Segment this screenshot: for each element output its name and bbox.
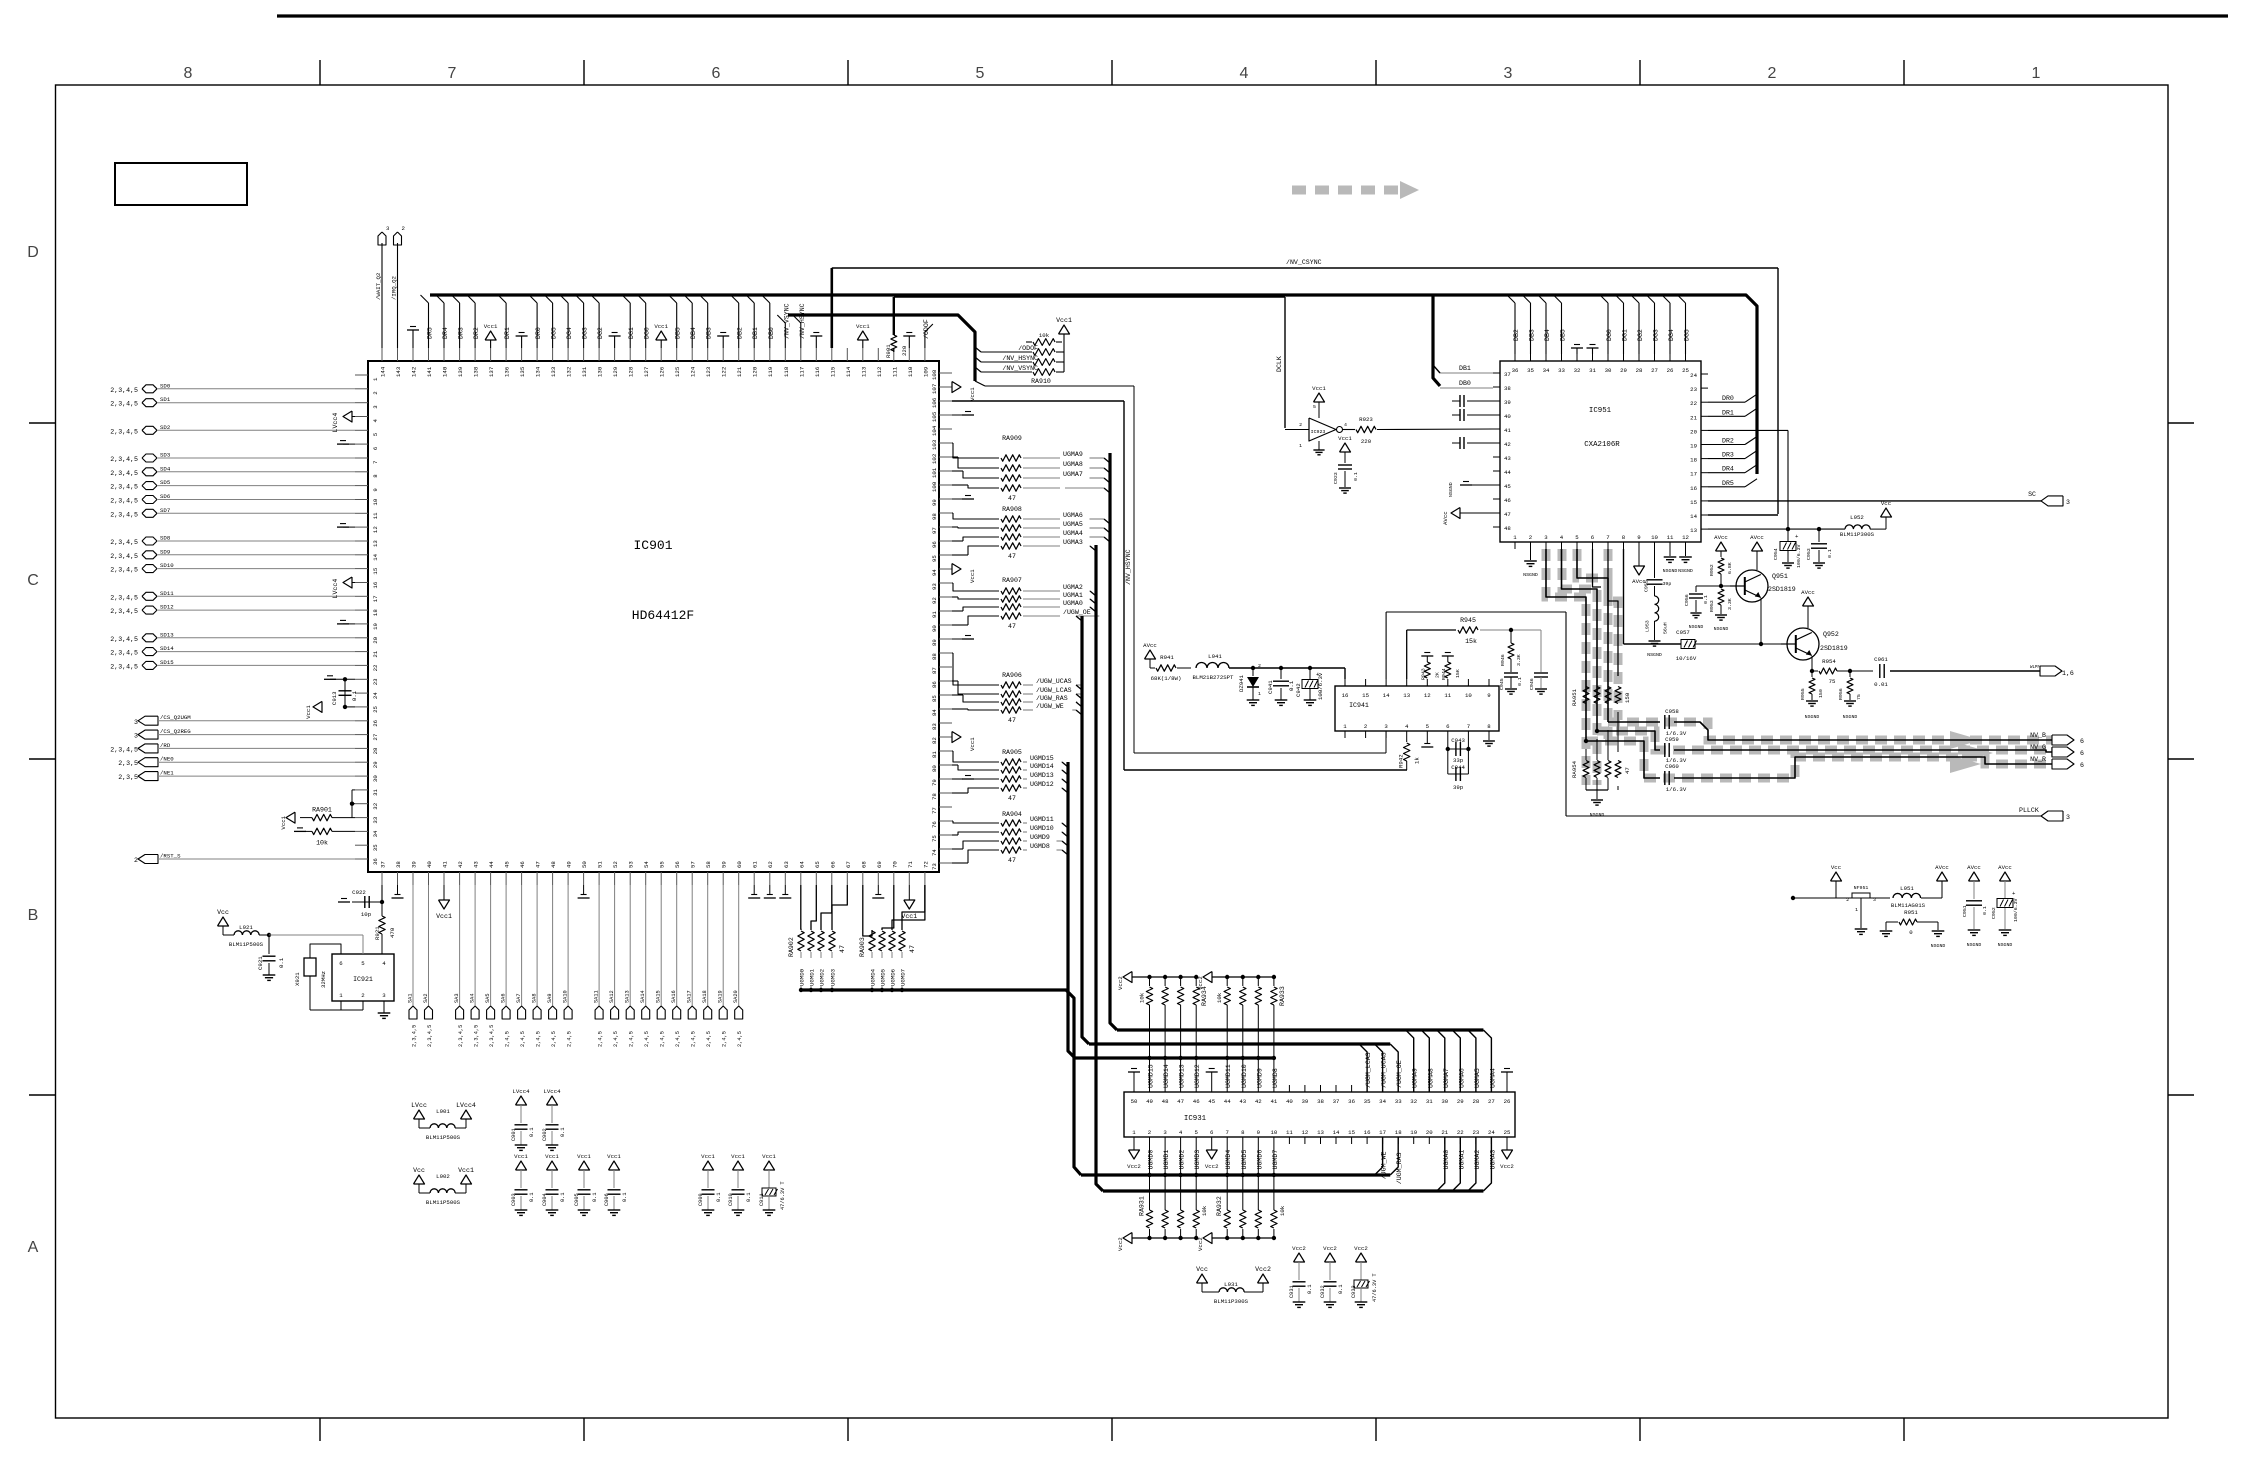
svg-text:10k: 10k — [1039, 332, 1050, 339]
IC U-IC931 — [1124, 1085, 1515, 1144]
svg-text:UGMD11: UGMD11 — [1225, 1064, 1232, 1088]
svg-text:91: 91 — [931, 611, 938, 618]
capacitor C911 47/6.3V T — [759, 1153, 786, 1215]
svg-text:RA904: RA904 — [1002, 811, 1022, 818]
svg-text:80: 80 — [931, 765, 938, 772]
ground pin6 — [337, 441, 355, 445]
svg-text:R943: R943 — [1420, 668, 1426, 680]
svg-text:24: 24 — [1690, 372, 1697, 379]
capacitor C910 0.1 — [728, 1153, 752, 1215]
svg-text:C959: C959 — [1665, 736, 1679, 743]
svg-text:6: 6 — [2080, 762, 2084, 769]
svg-text:C955: C955 — [1644, 580, 1650, 592]
svg-text:11: 11 — [1286, 1129, 1293, 1136]
svg-text:129: 129 — [612, 366, 619, 377]
svg-text:DG3: DG3 — [1653, 329, 1660, 341]
svg-text:6: 6 — [339, 960, 343, 967]
svg-text:4: 4 — [1240, 65, 1249, 82]
svg-text:0.1: 0.1 — [1982, 906, 1988, 915]
svg-text:31: 31 — [1426, 1098, 1433, 1105]
svg-text:122: 122 — [721, 366, 728, 377]
IC931 grounds and power — [1127, 1069, 1514, 1171]
svg-text:40: 40 — [1504, 413, 1511, 420]
svg-text:17: 17 — [1379, 1129, 1386, 1136]
inductor L902 — [413, 1167, 474, 1206]
svg-text:33: 33 — [1558, 367, 1565, 374]
svg-text:UGMD0: UGMD0 — [1148, 1150, 1155, 1170]
svg-text:60: 60 — [736, 861, 743, 868]
wire SC out — [1708, 491, 2070, 506]
svg-text:Vcc1: Vcc1 — [545, 1153, 559, 1160]
svg-text:UGMD9: UGMD9 — [1030, 834, 1050, 841]
svg-text:DB2: DB2 — [1513, 329, 1520, 341]
svg-text:DB1: DB1 — [752, 327, 759, 339]
svg-text:64: 64 — [798, 861, 805, 868]
svg-text:4: 4 — [382, 960, 386, 967]
svg-text:28: 28 — [1636, 367, 1643, 374]
svg-text:42: 42 — [457, 861, 464, 868]
svg-text:IC923: IC923 — [1311, 429, 1326, 435]
svg-text:16: 16 — [1342, 692, 1349, 699]
title block box — [115, 163, 247, 205]
svg-text:NV_G: NV_G — [2030, 744, 2046, 751]
svg-text:76: 76 — [931, 821, 938, 828]
svg-text:DR1: DR1 — [1722, 409, 1734, 416]
svg-text:113: 113 — [860, 366, 867, 377]
svg-text:DR2: DR2 — [1722, 438, 1734, 445]
svg-text:53: 53 — [628, 861, 635, 868]
svg-text:Vcc2: Vcc2 — [1197, 976, 1204, 990]
svg-text:Vcc1: Vcc1 — [1312, 385, 1326, 392]
svg-text:22: 22 — [1457, 1129, 1464, 1136]
svg-text:0.1: 0.1 — [1338, 1284, 1344, 1294]
svg-text:0.1: 0.1 — [1827, 549, 1833, 558]
svg-text:/UGM_OE: /UGM_OE — [1396, 1060, 1403, 1088]
svg-text:C906: C906 — [604, 1193, 610, 1206]
svg-text:78: 78 — [931, 793, 938, 800]
svg-text:DG4: DG4 — [566, 327, 573, 339]
svg-text:C958: C958 — [1665, 708, 1679, 715]
svg-text:32MHz: 32MHz — [320, 971, 327, 988]
svg-text:8: 8 — [372, 474, 379, 478]
svg-text:LVcc4: LVcc4 — [456, 1102, 476, 1109]
svg-text:44: 44 — [488, 861, 495, 868]
svg-text:3: 3 — [1384, 723, 1388, 730]
IC901 top pin wires to bus — [421, 295, 775, 348]
svg-text:17: 17 — [1690, 471, 1697, 478]
svg-text:0.1: 0.1 — [351, 690, 358, 701]
svg-text:DR1: DR1 — [504, 327, 511, 339]
svg-text:2,3,4,5: 2,3,4,5 — [110, 539, 138, 546]
IC U-IC921 — [332, 954, 394, 1001]
resistor array RA910 10k — [975, 317, 1072, 385]
svg-text:6: 6 — [712, 65, 721, 82]
svg-text:2,3,4,5: 2,3,4,5 — [110, 387, 138, 394]
svg-text:23: 23 — [372, 678, 379, 685]
svg-text:SA15: SA15 — [656, 990, 662, 1003]
svg-text:NSGND: NSGND — [1931, 943, 1946, 949]
svg-text:R956: R956 — [1838, 688, 1844, 700]
svg-text:2: 2 — [372, 391, 379, 395]
svg-text:46: 46 — [1504, 497, 1511, 504]
svg-text:AVcc: AVcc — [1714, 534, 1728, 541]
svg-text:33p: 33p — [1453, 757, 1464, 764]
wire R945 net — [1407, 617, 1541, 679]
svg-text:UGMA7: UGMA7 — [1063, 471, 1083, 478]
svg-text:C911: C911 — [759, 1193, 765, 1206]
svg-text:1: 1 — [1258, 691, 1261, 697]
svg-text:+: + — [1795, 533, 1799, 540]
IC931 bottom signal labels — [1148, 1150, 1497, 1185]
svg-text:19: 19 — [372, 622, 379, 629]
svg-text:RA951: RA951 — [1571, 688, 1578, 706]
svg-text:3: 3 — [2066, 499, 2070, 506]
svg-text:6: 6 — [2080, 738, 2084, 745]
svg-text:140: 140 — [442, 366, 449, 377]
svg-text:UGMD3: UGMD3 — [830, 968, 837, 986]
capacitors C943 C944 33p 39p — [1446, 737, 1471, 791]
inverter IC923 — [1285, 385, 1347, 455]
svg-text:Vcc: Vcc — [413, 1167, 425, 1174]
svg-text:R954: R954 — [1822, 658, 1836, 665]
capacitor C942 100/6.3V — [1295, 666, 1324, 706]
svg-text:L953: L953 — [1645, 620, 1651, 632]
svg-text:SD4: SD4 — [160, 465, 171, 472]
wire NV_G from pin4 — [1562, 549, 2085, 764]
svg-text:R945: R945 — [1460, 617, 1476, 624]
svg-text:Vcc2: Vcc2 — [1127, 1163, 1141, 1170]
svg-text:Vcc: Vcc — [1196, 1266, 1208, 1273]
svg-text:/NV_CSYNC: /NV_CSYNC — [1286, 259, 1322, 266]
inductor L921 — [217, 909, 363, 954]
svg-text:43: 43 — [1239, 1098, 1246, 1105]
svg-text:NSGND: NSGND — [1523, 572, 1538, 578]
svg-text:DB4: DB4 — [1544, 329, 1551, 341]
svg-text:4: 4 — [1560, 534, 1564, 541]
svg-text:DG2: DG2 — [1637, 329, 1644, 341]
svg-text:71: 71 — [907, 861, 914, 868]
svg-text:112: 112 — [876, 366, 883, 377]
svg-text:46: 46 — [519, 861, 526, 868]
svg-text:DB2: DB2 — [737, 327, 744, 339]
svg-text:SD12: SD12 — [160, 604, 174, 611]
capacitor C913 — [305, 676, 358, 719]
svg-text:89: 89 — [931, 639, 938, 646]
svg-text:CXA2106R: CXA2106R — [1584, 441, 1620, 449]
svg-text:56uH: 56uH — [1663, 622, 1669, 634]
svg-text:127: 127 — [643, 367, 650, 377]
svg-text:12: 12 — [1682, 534, 1689, 541]
svg-text:25: 25 — [1682, 367, 1689, 374]
svg-text:C909: C909 — [698, 1193, 704, 1206]
svg-text:UGMA1: UGMA1 — [1458, 1150, 1465, 1170]
svg-text:143: 143 — [395, 366, 402, 377]
svg-text:UGMD5: UGMD5 — [880, 968, 887, 986]
svg-text:2,4,5: 2,4,5 — [722, 1031, 728, 1047]
svg-text:Vcc1: Vcc1 — [701, 1153, 715, 1160]
capacitor C931 0.1 — [1289, 1245, 1313, 1307]
svg-text:220: 220 — [1361, 438, 1372, 445]
svg-text:28: 28 — [1472, 1098, 1479, 1105]
svg-text:2,3,4,5: 2,3,4,5 — [110, 636, 138, 643]
svg-text:15: 15 — [372, 567, 379, 574]
svg-text:108: 108 — [931, 369, 938, 380]
svg-text:BLM11P500S: BLM11P500S — [426, 1199, 461, 1206]
svg-text:DR0: DR0 — [1722, 395, 1734, 402]
svg-text:1/6.3V: 1/6.3V — [1666, 786, 1687, 793]
svg-text:52: 52 — [612, 861, 619, 868]
svg-text:UGMD6: UGMD6 — [1256, 1150, 1263, 1170]
svg-text:30: 30 — [372, 775, 379, 782]
svg-text:83: 83 — [931, 723, 938, 730]
svg-text:45: 45 — [1504, 483, 1511, 490]
svg-text:90: 90 — [931, 625, 938, 632]
svg-text:2,3,4,5: 2,3,4,5 — [110, 456, 138, 463]
svg-text:2,3,4,5: 2,3,4,5 — [110, 484, 138, 491]
svg-text:SD0: SD0 — [160, 382, 171, 389]
svg-text:C933: C933 — [1351, 1285, 1357, 1298]
svg-text:13: 13 — [1690, 527, 1697, 534]
svg-text:2,3,4,5: 2,3,4,5 — [110, 511, 138, 518]
gnd/power top pins — [484, 323, 916, 348]
svg-text:UGMA5: UGMA5 — [1474, 1068, 1481, 1088]
svg-text:DB1: DB1 — [1459, 365, 1471, 372]
svg-text:L951: L951 — [1900, 885, 1914, 892]
svg-text:2,3,4,5: 2,3,4,5 — [489, 1025, 495, 1047]
svg-text:R923: R923 — [1359, 416, 1373, 423]
svg-text:C: C — [27, 572, 39, 589]
svg-text:BLM11P300S: BLM11P300S — [1214, 1298, 1249, 1305]
svg-text:C944: C944 — [1451, 764, 1465, 771]
svg-text:55: 55 — [659, 861, 666, 868]
svg-text:UGMD14: UGMD14 — [1163, 1064, 1170, 1088]
svg-text:SA20: SA20 — [733, 990, 739, 1003]
svg-text:35: 35 — [372, 844, 379, 851]
svg-text:AVcc: AVcc — [1967, 864, 1981, 871]
svg-text:31: 31 — [372, 788, 379, 795]
capacitor C952 100/6.3V — [1991, 864, 2019, 948]
svg-text:UGMD0: UGMD0 — [799, 968, 806, 986]
svg-text:2,4,5: 2,4,5 — [567, 1031, 573, 1047]
capacitor C933 47/6.3V T — [1351, 1245, 1378, 1307]
svg-text:R941: R941 — [1160, 654, 1174, 661]
svg-text:106: 106 — [931, 397, 938, 408]
IC951 bottom grounds — [1523, 549, 1693, 585]
svg-text:C952: C952 — [1991, 907, 1997, 919]
svg-text:C954: C954 — [1773, 548, 1779, 560]
svg-text:110: 110 — [907, 366, 914, 377]
svg-text:UGMA3: UGMA3 — [1489, 1150, 1496, 1170]
svg-text:AVcc: AVcc — [1750, 534, 1764, 541]
svg-text:AVcc: AVcc — [1143, 642, 1157, 649]
svg-text:Vcc2: Vcc2 — [1354, 1245, 1368, 1252]
svg-text:7: 7 — [372, 461, 379, 464]
svg-text:R955: R955 — [1800, 688, 1806, 700]
svg-text:3: 3 — [134, 733, 138, 740]
svg-text:19: 19 — [1690, 443, 1697, 450]
svg-text:WLPF: WLPF — [2030, 666, 2040, 670]
svg-text:93: 93 — [931, 583, 938, 590]
svg-text:/UGW_OE: /UGW_OE — [1063, 609, 1091, 616]
IC951 left side caps — [1442, 395, 1493, 525]
svg-text:PLLCK: PLLCK — [2019, 807, 2039, 814]
svg-text:SD5: SD5 — [160, 479, 171, 486]
svg-text:/UGW_WE: /UGW_WE — [1036, 703, 1064, 710]
bus secondary top — [777, 303, 975, 381]
svg-text:SD7: SD7 — [160, 507, 170, 514]
svg-text:95: 95 — [931, 555, 938, 562]
wire /NV_CSYNC — [832, 259, 1778, 514]
svg-text:RA954: RA954 — [1571, 760, 1578, 778]
svg-text:119: 119 — [767, 366, 774, 377]
svg-text:136: 136 — [504, 366, 511, 377]
svg-text:41: 41 — [1504, 427, 1511, 434]
svg-text:UGMA6: UGMA6 — [1063, 512, 1083, 519]
wire PLLCK — [1566, 700, 2070, 821]
svg-text:15: 15 — [1690, 499, 1697, 506]
svg-text:39p: 39p — [1663, 581, 1672, 587]
inductor L931 — [1196, 1266, 1271, 1305]
svg-text:SA1: SA1 — [408, 993, 414, 1003]
svg-text:66: 66 — [829, 861, 836, 868]
svg-text:42: 42 — [1255, 1098, 1262, 1105]
svg-text:2,4,5: 2,4,5 — [706, 1031, 712, 1047]
resistor array RA907 — [952, 577, 1099, 630]
svg-text:75: 75 — [1829, 678, 1836, 685]
svg-text:47: 47 — [1177, 1098, 1184, 1105]
svg-text:2: 2 — [1299, 422, 1302, 428]
svg-text:LVcc4: LVcc4 — [332, 579, 339, 599]
svg-text:135: 135 — [519, 366, 526, 377]
svg-text:UGMA4: UGMA4 — [1489, 1068, 1496, 1088]
capacitor C904 0.1 — [542, 1153, 566, 1215]
svg-text:SD10: SD10 — [160, 562, 174, 569]
right side gnd/power pins — [952, 412, 976, 780]
svg-text:UGMD10: UGMD10 — [1030, 825, 1054, 832]
svg-text:58: 58 — [705, 861, 712, 868]
capacitor C909 0.1 — [698, 1153, 722, 1215]
svg-text:47: 47 — [1008, 857, 1016, 864]
svg-text:137: 137 — [488, 367, 495, 377]
svg-text:44: 44 — [1504, 469, 1511, 476]
svg-text:117: 117 — [798, 367, 805, 377]
svg-text:8: 8 — [1241, 1129, 1245, 1136]
svg-text:Vcc1: Vcc1 — [856, 323, 870, 330]
svg-text:UGMA2: UGMA2 — [1474, 1150, 1481, 1170]
svg-text:SD11: SD11 — [160, 590, 174, 597]
svg-text:10: 10 — [1651, 534, 1658, 541]
capacitor C957 10/16V — [1624, 549, 1788, 662]
svg-text:1: 1 — [1513, 534, 1517, 541]
svg-text:L931: L931 — [1224, 1281, 1238, 1288]
bottom gnd/power pins — [392, 885, 918, 920]
resistor array RA933 — [1197, 972, 1286, 1086]
svg-text:29: 29 — [372, 761, 379, 768]
svg-text:15k: 15k — [1465, 638, 1477, 645]
svg-text:47/6.3V T: 47/6.3V T — [780, 1181, 786, 1210]
svg-text:NSGND: NSGND — [1678, 568, 1693, 574]
svg-text:6.8K: 6.8K — [1727, 562, 1733, 574]
svg-text:10/16V: 10/16V — [1676, 655, 1697, 662]
svg-text:2: 2 — [1846, 897, 1849, 903]
svg-text:C960: C960 — [1665, 763, 1679, 770]
svg-text:2,3,4,5: 2,3,4,5 — [110, 567, 138, 574]
svg-text:47: 47 — [1008, 717, 1016, 724]
svg-text:23: 23 — [1472, 1129, 1479, 1136]
svg-text:5: 5 — [1313, 404, 1316, 410]
inductor L941 — [1193, 653, 1345, 681]
svg-text:/UGM_LCAS: /UGM_LCAS — [1365, 1052, 1372, 1088]
svg-text:SD13: SD13 — [160, 631, 174, 638]
svg-text:NV_R: NV_R — [2030, 756, 2046, 763]
svg-text:9: 9 — [1637, 534, 1641, 541]
svg-text:UGMD1: UGMD1 — [809, 968, 816, 986]
svg-text:100/6.3V: 100/6.3V — [2013, 898, 2019, 922]
svg-text:C951: C951 — [1962, 905, 1968, 917]
svg-text:47/6.3V T: 47/6.3V T — [1372, 1273, 1378, 1302]
svg-text:Vcc1: Vcc1 — [458, 1167, 474, 1174]
svg-text:R944: R944 — [1441, 668, 1447, 680]
svg-text:SD3: SD3 — [160, 452, 171, 459]
svg-text:2,3,4,5: 2,3,4,5 — [458, 1025, 464, 1047]
svg-text:6: 6 — [1210, 1129, 1214, 1136]
svg-text:82: 82 — [931, 737, 938, 744]
svg-text:2,3,5: 2,3,5 — [118, 760, 138, 767]
svg-text:2: 2 — [1768, 65, 1777, 82]
svg-text:5: 5 — [1575, 534, 1579, 541]
resistor array RA908 — [952, 506, 1110, 560]
svg-text:IC901: IC901 — [633, 538, 672, 553]
transistor Q951 2SD1819 — [1684, 534, 1796, 646]
svg-text:41: 41 — [1270, 1098, 1277, 1105]
svg-text:UGMA4: UGMA4 — [1063, 530, 1083, 537]
bus /NV data top — [430, 295, 1757, 474]
svg-text:RA931: RA931 — [1139, 1196, 1146, 1216]
svg-text:NF951: NF951 — [1854, 885, 1869, 891]
svg-text:10k: 10k — [1279, 1205, 1286, 1216]
svg-text:Vcc1: Vcc1 — [607, 1153, 621, 1160]
svg-text:18: 18 — [1690, 457, 1697, 464]
resistor array RA931 — [1117, 1144, 1208, 1251]
svg-text:SA3: SA3 — [454, 993, 460, 1003]
svg-text:UGMD7: UGMD7 — [1272, 1150, 1279, 1170]
svg-text:5: 5 — [372, 432, 379, 436]
svg-text:DR4: DR4 — [442, 327, 449, 339]
svg-text:RA906: RA906 — [1002, 672, 1022, 679]
svg-text:SA19: SA19 — [718, 990, 724, 1003]
IC931 top signal labels — [1148, 1052, 1497, 1088]
svg-text:Vcc2: Vcc2 — [1205, 1163, 1219, 1170]
svg-text:25: 25 — [372, 705, 379, 712]
bus /UGW ctl — [1082, 616, 1089, 1044]
svg-text:47: 47 — [839, 945, 846, 953]
svg-text:14: 14 — [1690, 513, 1697, 520]
tags /WAIT_Q2 /IRQ_Q2 — [375, 225, 419, 348]
svg-text:Vcc1: Vcc1 — [901, 913, 917, 920]
svg-text:SA13: SA13 — [625, 990, 631, 1003]
svg-text:2,4,5: 2,4,5 — [660, 1031, 666, 1047]
svg-text:45: 45 — [1208, 1098, 1215, 1105]
wire pin14 NV_CSYNC — [1708, 514, 1778, 516]
svg-text:/UGW_LCAS: /UGW_LCAS — [1036, 687, 1072, 694]
svg-text:RA908: RA908 — [1002, 506, 1022, 513]
svg-text:45: 45 — [504, 861, 511, 868]
svg-text:2,4,5: 2,4,5 — [644, 1031, 650, 1047]
bus UGMA0-3 horizontal — [1103, 1137, 1491, 1191]
svg-text:UGMD1: UGMD1 — [1163, 1150, 1170, 1170]
svg-text:33: 33 — [1395, 1098, 1402, 1105]
svg-text:/RD: /RD — [160, 742, 171, 749]
